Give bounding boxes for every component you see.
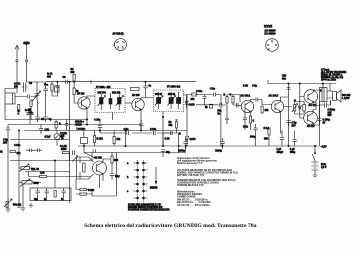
capacitor C23 xyxy=(45,188,50,198)
resistor R12 xyxy=(261,106,263,113)
wire xyxy=(27,82,46,85)
wire T2 out bottom xyxy=(162,112,164,147)
svg-text:R 130: R 130 xyxy=(88,190,95,192)
svg-text:NORMAL AND VARIABLE CAPACITOR: NORMAL AND VARIABLE CAPACITOR TURNED-IN … xyxy=(177,171,239,174)
wire antenna feed xyxy=(5,89,17,94)
wire xyxy=(5,104,46,122)
svg-text:GAMME D'ONDE:: GAMME D'ONDE: xyxy=(177,196,196,199)
capacitor C37 xyxy=(26,149,35,153)
svg-text:Schema elettrico del radiorice: Schema elettrico del radioricevitore GRU… xyxy=(84,223,257,229)
loop antenna L1 frame xyxy=(5,93,15,104)
wire rail to T3 xyxy=(323,84,330,92)
capacitor C30 xyxy=(73,151,75,156)
capacitor C22 xyxy=(36,188,41,198)
svg-text:AC 117: AC 117 xyxy=(307,125,315,128)
IF transformer T1 dashed box xyxy=(95,89,125,113)
svg-text:Batt.: Batt. xyxy=(321,163,326,166)
resistor R27 xyxy=(113,131,115,147)
svg-text:1 µF: 1 µF xyxy=(277,149,282,151)
capacitor C1a series xyxy=(28,95,30,99)
ground G5 xyxy=(29,203,33,207)
svg-text:Batteriespannung 7,5 V: Batteriespannung 7,5 V xyxy=(177,162,203,165)
capacitor C2 top xyxy=(44,85,49,95)
wire R14 drop xyxy=(29,115,31,125)
coil L2 xyxy=(22,83,28,93)
wire xyxy=(125,102,132,104)
wire xyxy=(70,153,93,197)
resistor R20 xyxy=(80,189,87,191)
svg-text:AC 151: AC 151 xyxy=(94,157,103,160)
svg-text:Vcc: Vcc xyxy=(44,85,49,87)
svg-text:OA70: OA70 xyxy=(190,138,197,141)
capacitor C14 xyxy=(243,114,247,124)
svg-text:L 0,5W: L 0,5W xyxy=(342,98,350,100)
svg-text:C 10µ: C 10µ xyxy=(94,120,101,122)
wire xyxy=(19,184,23,203)
resistor R9 xyxy=(226,97,228,104)
svg-text:KW OC/OC 5,9 . . . . 6,3 Mc: KW OC/OC 5,9 . . . . 6,3 Mc/46m xyxy=(177,201,211,204)
wire xyxy=(19,181,41,183)
svg-text:C 5µ: C 5µ xyxy=(252,86,258,88)
capacitor C4 xyxy=(56,82,60,91)
svg-text:XXVII: XXVII xyxy=(264,25,272,29)
svg-text:301 805: 301 805 xyxy=(342,95,351,97)
svg-text:1 µF: 1 µF xyxy=(290,149,295,151)
switch caption xyxy=(128,204,170,212)
resistor R25 xyxy=(55,120,57,131)
svg-text:R4: R4 xyxy=(71,68,75,71)
wire collector Q1 xyxy=(87,96,95,98)
svg-text:4,7µF: 4,7µF xyxy=(45,136,52,139)
transistor Q2 IF1 xyxy=(132,98,144,110)
capacitor C15 series xyxy=(256,98,262,102)
junction dots rail2 xyxy=(162,145,163,146)
resistor R8 xyxy=(192,93,197,96)
pot P5 xyxy=(20,164,30,172)
capacitor C11 series xyxy=(214,93,222,97)
svg-text:R500: R500 xyxy=(61,149,67,151)
svg-text:FT 9356-412: FT 9356-412 xyxy=(167,86,181,89)
svg-text:R 1,5k: R 1,5k xyxy=(60,146,67,148)
coil T2b xyxy=(168,92,176,109)
capacitor C10 xyxy=(203,95,207,103)
svg-text:R 2k: R 2k xyxy=(243,86,249,88)
wire bias riser xyxy=(299,84,301,102)
transistor Q3 AF pre xyxy=(241,100,253,112)
wire C39 stem xyxy=(100,131,163,147)
antenna A1 (telescopic) xyxy=(15,45,19,88)
wire xyxy=(245,112,251,131)
diode D3 xyxy=(298,104,301,112)
svg-text:C 5n: C 5n xyxy=(210,89,216,91)
output transformer T3 xyxy=(320,88,328,102)
capacitor C31 xyxy=(110,169,114,180)
capacitor C26 on rail xyxy=(220,138,225,149)
svg-text:50n: 50n xyxy=(218,111,223,113)
svg-text:240: 240 xyxy=(14,86,19,89)
wire y133 xyxy=(100,132,169,134)
svg-text:AC 100.1: AC 100.1 xyxy=(241,95,251,98)
svg-text:OA70: OA70 xyxy=(189,104,196,107)
pot P4 tone xyxy=(4,199,12,208)
antenna A2 (external, disc top) xyxy=(23,42,29,82)
svg-text:16V: 16V xyxy=(328,115,333,117)
wire y171.5 xyxy=(25,171,70,173)
capacitor C16 xyxy=(287,88,291,90)
svg-text:C 10n: C 10n xyxy=(14,145,21,147)
transistor Q7 driver xyxy=(93,161,107,175)
switch contacts rows xyxy=(134,162,148,199)
wire y146 bottom audio rail xyxy=(78,145,319,147)
wire output collectors xyxy=(313,90,320,125)
svg-text:C5: C5 xyxy=(29,83,33,85)
capacitor C8 hanging xyxy=(143,82,147,98)
capacitor C39 series xyxy=(127,131,129,135)
junction dots rail xyxy=(57,81,58,82)
bottom box frame xyxy=(30,188,71,201)
switch bank SW columns xyxy=(138,160,144,204)
ground G4 arrow xyxy=(313,172,318,177)
wire xyxy=(7,137,9,207)
svg-text:R56: R56 xyxy=(264,139,269,141)
capacitor C25 on rail xyxy=(184,138,189,149)
svg-text:10V: 10V xyxy=(328,112,333,114)
svg-text:C 500µ: C 500µ xyxy=(328,110,336,112)
NTC R13 xyxy=(303,105,306,112)
svg-text:R: R xyxy=(179,134,181,136)
wire xyxy=(18,131,20,200)
capacitor C27 xyxy=(253,124,257,134)
wire Q2 emitter xyxy=(140,110,142,131)
svg-text:AC 100.2: AC 100.2 xyxy=(269,95,279,98)
electrolytic C28 xyxy=(280,133,285,146)
capacitor C20 xyxy=(6,128,10,137)
svg-text:AC 98/100: AC 98/100 xyxy=(265,30,277,33)
svg-text:6V: 6V xyxy=(323,122,326,124)
svg-text:C: C xyxy=(18,114,20,116)
diode D2 AGC xyxy=(185,137,188,147)
arrow pot wiper xyxy=(73,156,78,162)
svg-text:b: b xyxy=(127,177,129,179)
svg-text:5k: 5k xyxy=(218,113,221,115)
wire base Q1 xyxy=(74,95,81,104)
resistor R23 pair xyxy=(10,151,16,153)
svg-text:C100µ: C100µ xyxy=(215,151,222,153)
svg-text:C28: C28 xyxy=(282,76,287,78)
wire right column xyxy=(320,102,322,147)
junction xyxy=(18,130,19,131)
transistor Q6 output bottom xyxy=(304,111,318,125)
svg-text:100µF: 100µF xyxy=(277,152,284,154)
svg-text:10µ: 10µ xyxy=(34,199,39,201)
capacitor C41 series xyxy=(170,131,172,135)
svg-text:10k: 10k xyxy=(169,125,174,127)
capacitor C13 series xyxy=(236,103,241,108)
capacitor C36 xyxy=(65,120,68,131)
text note top right xyxy=(321,70,347,82)
wire x178.7 xyxy=(163,133,179,153)
svg-text:946 706: 946 706 xyxy=(98,92,107,95)
capacitor C34 below rail xyxy=(161,150,165,158)
resistor R15 xyxy=(54,191,56,198)
resistor R22 xyxy=(40,175,47,177)
wire left drop xyxy=(7,125,9,129)
wire bias network xyxy=(295,102,304,115)
wire xyxy=(91,153,93,161)
tick rail x91 xyxy=(90,80,92,84)
wire emitter Q1 xyxy=(86,108,88,125)
speaker LS xyxy=(333,90,342,102)
svg-text:VOLTAGES MEASURED ON DC VOLTME: VOLTAGES MEASURED ON DC VOLTMETER 20kΩ xyxy=(177,169,232,172)
resistor R4 above rail xyxy=(73,75,75,82)
coil T1a xyxy=(98,91,106,110)
wire bottom xyxy=(92,195,117,197)
ground G3 xyxy=(17,203,22,208)
wire Q3 collector xyxy=(245,100,256,115)
wire xyxy=(15,96,37,98)
svg-text:Spannungen mit HF-Volt Gera: Spannungen mit HF-Volt Gera xyxy=(177,157,210,160)
switch arrow xyxy=(155,167,158,185)
resistor R5 xyxy=(73,88,75,95)
IF transformer T2 dashed box xyxy=(154,90,184,112)
wire xyxy=(196,102,218,105)
svg-text:933 270: 933 270 xyxy=(112,93,121,95)
svg-text:CONDENSATORE VARIABILE CHIUSO: CONDENSATORE VARIABILE CHIUSO xyxy=(177,182,219,185)
svg-text:C6: C6 xyxy=(63,77,67,79)
resistor R10 xyxy=(232,97,234,104)
svg-text:C 5n: C 5n xyxy=(124,129,130,131)
svg-text:10n: 10n xyxy=(282,78,287,80)
wire detector row xyxy=(195,94,213,96)
svg-text:5k: 5k xyxy=(205,107,208,109)
resistor R24 xyxy=(18,105,20,112)
box K1 xyxy=(80,131,87,147)
wire vertical supply xyxy=(288,84,290,147)
wire to output bases xyxy=(284,97,305,119)
resistor R3 xyxy=(51,84,53,91)
wire x55 xyxy=(54,161,56,189)
capacitor C18 coupling xyxy=(322,101,331,108)
transistor pinout U-B (case bottom view) xyxy=(266,39,279,52)
capacitor T1c mid xyxy=(109,93,112,109)
center text block xyxy=(177,157,239,207)
pot P3 volume xyxy=(20,179,32,187)
wire xyxy=(256,130,295,146)
resistor R21 xyxy=(80,193,87,195)
svg-text:AF 125: AF 125 xyxy=(132,94,140,97)
wire T1 out xyxy=(112,113,114,121)
svg-text:100µ: 100µ xyxy=(250,137,256,139)
svg-text:R4: R4 xyxy=(169,121,173,124)
wire Q4 collector xyxy=(281,97,289,102)
svg-text:R: R xyxy=(224,95,226,97)
driver stage top wire xyxy=(84,146,186,153)
battery B1 xyxy=(312,160,319,172)
wire emitters join xyxy=(313,102,319,113)
svg-text:AF125 o: AF125 o xyxy=(75,121,85,124)
coil T1b xyxy=(116,91,124,110)
svg-text:AF=0 m. 1kHz: AF=0 m. 1kHz xyxy=(321,79,337,82)
wire riser xyxy=(125,131,127,147)
wire Q7 xyxy=(100,159,111,188)
wire xyxy=(220,95,222,106)
wire detector out xyxy=(184,95,193,98)
wire y176.5 xyxy=(29,172,91,177)
svg-text:6k8: 6k8 xyxy=(47,77,52,79)
diode D4 case xyxy=(54,131,60,147)
svg-text:5n: 5n xyxy=(149,86,152,88)
svg-text:R 1k: R 1k xyxy=(243,127,249,129)
coil T2c xyxy=(177,92,181,109)
svg-text:C 10n: C 10n xyxy=(150,129,157,131)
svg-text:C: C xyxy=(253,121,255,123)
wire base Q3 xyxy=(233,95,240,106)
capacitor C24 xyxy=(139,120,144,131)
svg-text:FREQUENCY RANGES:: FREQUENCY RANGES: xyxy=(177,193,203,196)
capacitor C21 xyxy=(43,114,45,116)
wire Q2 collector xyxy=(141,98,154,100)
svg-text:a: a xyxy=(127,163,129,165)
trimmer P2 xyxy=(292,104,298,113)
transistor pinout U-A (case bottom view) xyxy=(114,39,127,51)
svg-text:LW GO 150 . . . . 305 kc: LW GO 150 . . . . 305 kc/1000m xyxy=(177,205,210,207)
wire vertical long x69.5 xyxy=(69,82,71,203)
coil box T0 xyxy=(55,86,60,92)
svg-text:7,5 V: 7,5 V xyxy=(321,167,327,169)
svg-text:10k: 10k xyxy=(265,110,270,112)
svg-text:R 1k4: R 1k4 xyxy=(97,138,104,141)
wire diagonal driver feed xyxy=(84,153,97,159)
svg-text:22k: 22k xyxy=(71,72,76,74)
transistor Q1 mixer xyxy=(78,97,90,109)
wire Q4 emitter down xyxy=(281,112,283,134)
wire mid bus y124.5 xyxy=(8,124,141,126)
svg-text:POSITION COMMUTATORE MARCATA: POSITION COMMUTATORE MARCATA xyxy=(128,209,170,212)
capacitor C2c xyxy=(44,95,48,122)
svg-text:C 100µ: C 100µ xyxy=(323,120,331,122)
svg-text:500k: 500k xyxy=(34,183,40,185)
resistor R14 xyxy=(27,113,33,115)
wire AGC vertical xyxy=(186,95,188,137)
svg-text:c: c xyxy=(127,191,129,193)
AGC bus wire xyxy=(24,130,187,132)
capacitor C32 xyxy=(98,121,102,131)
capacitor C33 xyxy=(62,188,67,198)
svg-text:VOL 5k: VOL 5k xyxy=(31,169,40,171)
resistor R1 xyxy=(30,100,32,107)
svg-text:4n R.: 4n R. xyxy=(47,73,53,76)
transistor Q4 driver xyxy=(271,100,283,112)
svg-text:C 5µ: C 5µ xyxy=(292,123,298,125)
resistor R19 xyxy=(111,156,113,163)
resistor R28 xyxy=(175,120,177,133)
driver transformer T4 xyxy=(77,157,94,179)
svg-text:15V: 15V xyxy=(3,142,8,144)
svg-text:AF 125 (6): AF 125 (6) xyxy=(113,33,124,36)
resistor R17 xyxy=(268,128,270,135)
switch S1 battery xyxy=(312,145,316,160)
svg-text:AF 116: AF 116 xyxy=(77,93,85,96)
svg-text:1k: 1k xyxy=(0,152,3,154)
diode D1 detector xyxy=(185,98,188,109)
wire xyxy=(262,100,271,105)
box X1 xyxy=(210,104,213,108)
svg-text:C 25: C 25 xyxy=(165,139,171,141)
svg-text:1,5k: 1,5k xyxy=(40,173,45,175)
wire xyxy=(227,95,240,119)
coil T2a xyxy=(155,92,163,109)
svg-text:Lautspr.: Lautspr. xyxy=(77,128,86,131)
svg-text:25V: 25V xyxy=(60,136,65,138)
capacitor C40 series xyxy=(153,131,155,135)
svg-text:L1 C1: L1 C1 xyxy=(14,84,21,86)
svg-text:C 2,2µ: C 2,2µ xyxy=(60,133,67,135)
capacitor C5 series in rail xyxy=(62,80,71,84)
svg-text:AC 117: AC 117 xyxy=(309,104,317,107)
wire xyxy=(52,82,58,96)
svg-text:BATTERY VOLTAGE 7,5V: BATTERY VOLTAGE 7,5V xyxy=(177,174,205,177)
top rail left xyxy=(46,81,196,83)
wire xyxy=(267,80,269,84)
wire left mid bus xyxy=(10,139,70,141)
svg-text:TENSIONI MISURATE CON VOLTMETR: TENSIONI MISURATE CON VOLTMETRO 20kΩ 540… xyxy=(177,179,236,182)
svg-text:TENSION DE PILES 7,5V: TENSION DE PILES 7,5V xyxy=(177,185,204,187)
tuning capacitor C2 xyxy=(32,83,41,102)
svg-text:DC 90/200: DC 90/200 xyxy=(265,33,277,35)
svg-text:10k: 10k xyxy=(17,153,22,155)
capacitor P1 series xyxy=(218,103,226,146)
ground G2 xyxy=(21,203,26,211)
capacitor C2b xyxy=(36,100,40,122)
wire y160 xyxy=(10,160,92,162)
svg-text:FT 9356 - 410: FT 9356 - 410 xyxy=(96,86,111,89)
svg-text:−7,5V: −7,5V xyxy=(321,147,328,149)
junction xyxy=(69,81,70,82)
resistor R26 xyxy=(94,131,96,147)
wire xyxy=(19,168,33,172)
resistor R6 horizontal xyxy=(131,88,140,91)
svg-text:0,1µ: 0,1µ xyxy=(115,176,120,178)
top rail right xyxy=(268,83,336,85)
capacitor C17 bottom xyxy=(287,121,292,127)
electrolytic C29 xyxy=(292,135,297,146)
svg-text:15V: 15V xyxy=(292,125,297,127)
svg-text:und angegebenen Werten gemesse: und angegebenen Werten gemessen. xyxy=(177,160,218,163)
wire bottom left bus xyxy=(5,119,87,121)
ground G1 xyxy=(6,208,11,213)
svg-text:ME/KU: ME/KU xyxy=(150,188,158,190)
wire T3 to LS xyxy=(327,91,333,105)
resistor R11 xyxy=(249,116,251,123)
capacitor C35 xyxy=(39,125,43,135)
wire xyxy=(73,82,75,88)
svg-text:47k: 47k xyxy=(191,98,196,101)
wire xyxy=(112,153,117,197)
svg-text:1,5k: 1,5k xyxy=(45,130,50,132)
junction dots AGC xyxy=(99,130,100,131)
svg-text:5k1: 5k1 xyxy=(117,139,122,141)
svg-text:R 4k7: R 4k7 xyxy=(25,109,32,112)
resistor R18 xyxy=(63,152,70,154)
capacitor C19 xyxy=(318,119,322,121)
capacitor C12 xyxy=(225,118,229,124)
svg-text:500µ: 500µ xyxy=(290,152,296,154)
transistor Q5 output top xyxy=(304,90,318,104)
capacitor C38 xyxy=(35,149,42,153)
